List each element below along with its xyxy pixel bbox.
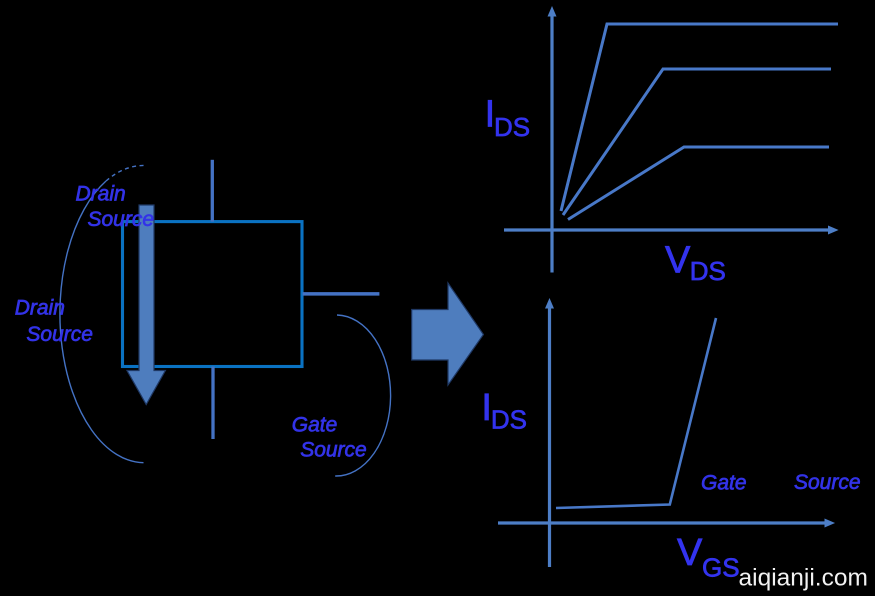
svg-text:aiqianji.com: aiqianji.com bbox=[739, 565, 868, 592]
bottom graph x-axis bbox=[498, 519, 835, 528]
label V_DS (top graph) bbox=[665, 240, 726, 286]
bottom graph y-axis bbox=[545, 298, 554, 567]
svg-text:DS: DS bbox=[491, 405, 527, 435]
top graph curve 2 (middle V_GS) bbox=[563, 69, 831, 215]
svg-text:DS: DS bbox=[690, 256, 726, 286]
transistor body (square) bbox=[123, 222, 303, 367]
svg-text:V: V bbox=[665, 240, 691, 282]
gate lead (right wire) bbox=[303, 292, 380, 296]
svg-text:V: V bbox=[677, 532, 703, 574]
current direction thick down arrow bbox=[127, 205, 165, 405]
label V_GS (bottom graph) bbox=[677, 532, 740, 583]
label I_DS (top graph) bbox=[485, 93, 531, 142]
bottom graph transfer curve bbox=[556, 318, 716, 508]
svg-text:Source: Source bbox=[300, 438, 367, 461]
source lead (bottom wire) bbox=[211, 367, 214, 440]
top graph curve 1 (highest V_GS) bbox=[561, 24, 838, 211]
top graph curve 3 (lowest V_GS) bbox=[568, 147, 829, 220]
svg-text:Gate: Gate bbox=[701, 471, 747, 494]
svg-text:Source: Source bbox=[26, 323, 93, 346]
svg-text:Gate: Gate bbox=[292, 413, 338, 436]
svg-text:Drain: Drain bbox=[15, 297, 65, 320]
svg-text:Source: Source bbox=[794, 471, 861, 494]
svg-text:DS: DS bbox=[494, 112, 530, 142]
right coupling arc (gate-source ellipse) bbox=[335, 315, 390, 476]
top graph x-axis bbox=[504, 226, 839, 235]
left coupling arc (drain-source ellipse, dashed tip) bbox=[60, 165, 145, 462]
top graph y-axis bbox=[548, 6, 557, 273]
svg-text:GS: GS bbox=[702, 553, 740, 583]
label I_DS (bottom graph) bbox=[481, 387, 527, 435]
big transform arrow pointing right bbox=[412, 283, 484, 385]
svg-text:Drain: Drain bbox=[76, 183, 126, 206]
svg-text:Source: Source bbox=[88, 208, 155, 231]
drain lead (top wire) bbox=[211, 160, 214, 222]
